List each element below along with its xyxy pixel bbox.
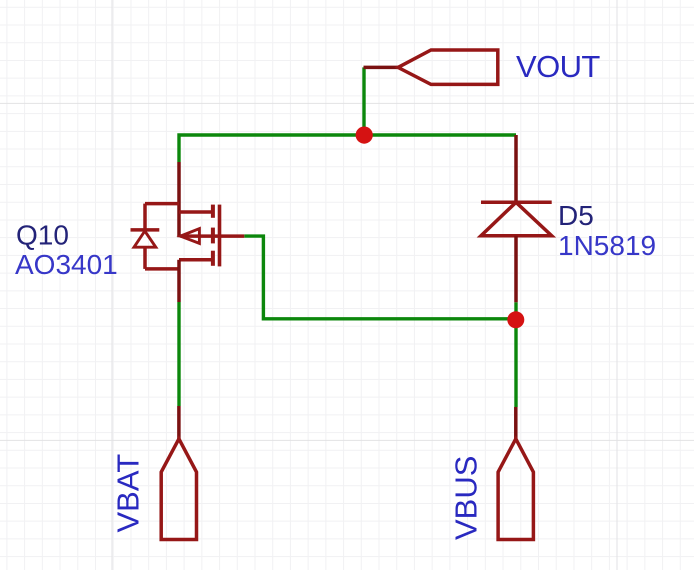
Q10 body-diode anode lead [143,247,147,269]
svg-text:D5: D5 [558,200,594,231]
wire W5 source to VBAT [177,302,180,406]
Q10 body-diode cathode bar [131,228,160,232]
Q10 channel bottom tap [179,258,212,262]
svg-text:VOUT: VOUT [516,49,600,84]
Q10 gate pin and body arrow shaft [180,234,244,238]
Q10 source pin [177,260,181,302]
Q10 gate plate [218,205,222,267]
wire W1 top horizontal net [179,135,516,162]
svg-text:VBAT: VBAT [111,454,146,533]
Q10 body-diode triangle [134,231,156,247]
port VBAT tag [161,439,196,540]
junction dot bottom [507,311,524,328]
junction dot top [356,127,373,144]
Q10 channel strips [211,205,215,266]
port VBUS pin [514,407,518,439]
wire W3 gate net [244,236,516,319]
Q10 body arrow [180,229,199,244]
diode D5 anode pin [514,236,518,303]
port VOUT tag [398,50,498,84]
port VBUS tag [498,439,533,540]
diode D5 triangle [481,202,552,235]
svg-text:VBUS: VBUS [449,456,484,540]
svg-text:1N5819: 1N5819 [558,230,656,261]
Q10 body-diode top connection [145,202,179,206]
svg-text:Q10: Q10 [16,220,69,251]
Q10 body-diode bottom connection [145,267,179,271]
wire W2 VOUT stub [362,67,365,135]
diode D5 cathode bar [481,201,552,205]
transistor Q10 (AO3401 P-MOSFET) [131,162,245,302]
diode D5 cathode pin [514,135,518,202]
svg-text:AO3401: AO3401 [15,249,118,280]
wire W4 diode anode to VBUS [514,302,517,407]
Q10 channel top tap [179,210,212,214]
Q10 body-diode cathode lead [143,204,147,230]
Q10 drain pin [177,162,181,237]
port VBAT pin [177,406,181,439]
port VOUT pin [364,66,399,70]
